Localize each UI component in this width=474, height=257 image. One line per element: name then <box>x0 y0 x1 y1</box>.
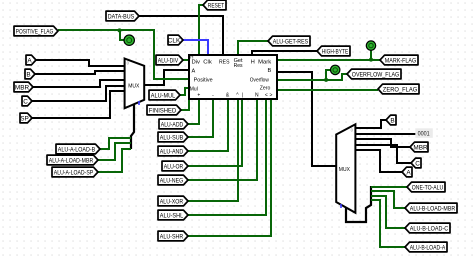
svg-text:B: B <box>390 117 394 124</box>
svg-text:ALU-SUB: ALU-SUB <box>160 134 184 141</box>
svg-text:MARK-FLAG: MARK-FLAG <box>385 57 416 64</box>
svg-text:C: C <box>415 160 420 167</box>
svg-text:Mark: Mark <box>258 59 271 65</box>
svg-text:A: A <box>27 57 32 64</box>
svg-text:B: B <box>267 68 271 74</box>
svg-text:ALU-A-LOAD-MBR: ALU-A-LOAD-MBR <box>49 157 93 164</box>
svg-text:POSITIVE_FLAG: POSITIVE_FLAG <box>16 28 53 35</box>
svg-text:OVERFLOW_FLAG: OVERFLOW_FLAG <box>352 71 399 78</box>
svg-text:ALU-DIV: ALU-DIV <box>158 57 179 64</box>
svg-text:N: N <box>255 93 259 99</box>
svg-text:ALU-NEG: ALU-NEG <box>160 177 183 184</box>
svg-text:ALU-OR: ALU-OR <box>164 163 183 170</box>
svg-text:A: A <box>192 68 196 74</box>
svg-text:|: | <box>242 93 243 99</box>
svg-text:SP: SP <box>20 115 29 122</box>
svg-text:0001: 0001 <box>418 131 430 138</box>
svg-text:Div: Div <box>192 59 201 65</box>
svg-text:MBR: MBR <box>413 144 428 151</box>
svg-text:Clk: Clk <box>203 60 212 66</box>
svg-text:>: > <box>269 93 272 99</box>
svg-text:MUX: MUX <box>339 167 351 173</box>
svg-text:ALU-B-LOAD-A: ALU-B-LOAD-A <box>410 244 446 251</box>
svg-text:CLK: CLK <box>168 37 181 44</box>
svg-text:H: H <box>251 59 255 65</box>
svg-text:RESET: RESET <box>208 2 224 9</box>
svg-text:ALU-XOR: ALU-XOR <box>160 198 183 205</box>
svg-text:Res: Res <box>234 63 243 69</box>
svg-text:ALU-ADD: ALU-ADD <box>161 121 183 128</box>
svg-text:MUX: MUX <box>128 84 140 90</box>
svg-text:+: + <box>197 93 200 99</box>
svg-text:ALU-MUL: ALU-MUL <box>151 92 176 99</box>
svg-text:B: B <box>26 71 30 78</box>
svg-text:C: C <box>23 98 28 105</box>
svg-text:H: H <box>190 55 193 60</box>
svg-text:ALU-GET-RES: ALU-GET-RES <box>273 38 309 45</box>
svg-text:ONE-TO-ALU: ONE-TO-ALU <box>412 184 443 191</box>
svg-text:MBR: MBR <box>15 84 30 91</box>
svg-text:ALU-AND: ALU-AND <box>160 148 183 155</box>
svg-text:ALU-SHR: ALU-SHR <box>160 233 183 240</box>
svg-text:Overflow: Overflow <box>250 78 269 84</box>
svg-text:RES: RES <box>219 59 230 65</box>
svg-text:HIGH-BYTE: HIGH-BYTE <box>322 48 349 55</box>
svg-text:ALU-SHL: ALU-SHL <box>160 212 184 219</box>
svg-text:DATA-BUS: DATA-BUS <box>108 13 135 20</box>
svg-text:Zero: Zero <box>260 86 271 92</box>
svg-text:Positive: Positive <box>194 78 213 84</box>
svg-text:A: A <box>406 169 411 176</box>
svg-text:ALU-B-LOAD-MBR: ALU-B-LOAD-MBR <box>410 205 455 212</box>
svg-text:ZERO_FLAG: ZERO_FLAG <box>383 86 417 93</box>
svg-text:ALU-A-LOAD-SP: ALU-A-LOAD-SP <box>54 169 94 176</box>
svg-text:<: < <box>265 93 268 99</box>
svg-text:FINISHED: FINISHED <box>149 107 176 114</box>
svg-text:ALU-B-LOAD-C: ALU-B-LOAD-C <box>410 225 448 232</box>
svg-text:ALU-A-LOAD-B: ALU-A-LOAD-B <box>58 146 96 153</box>
